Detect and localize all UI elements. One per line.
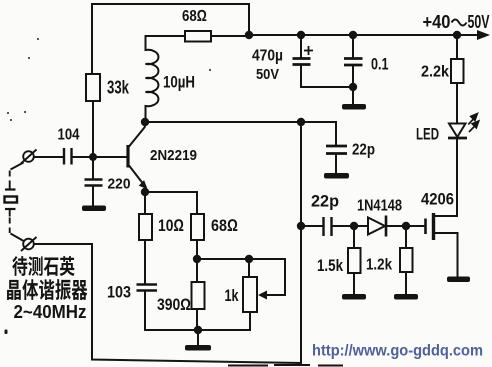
junction 470u ground link bbox=[349, 83, 357, 91]
svg-text:10µH: 10µH bbox=[163, 74, 195, 92]
wire feedback vertical bbox=[300, 122, 302, 362]
wire 220 top lead bbox=[92, 157, 94, 179]
svg-text:22p: 22p bbox=[311, 193, 339, 211]
wire 0.1 bottom lead bbox=[352, 66, 354, 104]
wire 22p1 bottom lead bbox=[335, 155, 337, 174]
svg-text:33k: 33k bbox=[107, 78, 130, 98]
wire 103 bottom lead bbox=[144, 292, 146, 331]
wire pot top lead bbox=[248, 259, 250, 277]
svg-text:4206: 4206 bbox=[421, 190, 454, 209]
svg-text:1.5k: 1.5k bbox=[317, 257, 344, 275]
wire 390ohm top lead bbox=[196, 259, 198, 282]
ground under 220 bbox=[82, 206, 106, 212]
wire pot bottom lead bbox=[249, 312, 251, 330]
svg-text:68Ω: 68Ω bbox=[211, 216, 238, 235]
label crystal chinese line2 bbox=[7, 279, 87, 300]
wire pot wiper link bbox=[265, 259, 285, 295]
junction pot top node bbox=[245, 255, 253, 263]
inductor L 10uH bbox=[146, 36, 159, 122]
potentiometer wiper arrow bbox=[258, 291, 267, 300]
resistor 10ohm bbox=[139, 214, 152, 240]
scan artifact bottom dashes bbox=[228, 364, 343, 367]
resistor 1.2k bbox=[400, 248, 413, 272]
capacitor 470u plus sign bbox=[304, 46, 313, 55]
wire crystal return bbox=[34, 244, 301, 363]
LED emission arrows bbox=[468, 114, 478, 132]
junction collector node bbox=[141, 118, 149, 126]
svg-text:2N2219: 2N2219 bbox=[150, 147, 197, 164]
wire coil top corner bbox=[146, 36, 186, 50]
svg-text:50V: 50V bbox=[468, 12, 490, 32]
wire collector rail bbox=[145, 121, 336, 123]
capacitor 470u bbox=[293, 59, 311, 65]
wire node to 22p2 bbox=[301, 225, 323, 227]
wire LED to drain bbox=[456, 140, 458, 217]
crystal XT under test bbox=[5, 190, 18, 210]
ground under source bbox=[447, 277, 470, 283]
capacitor 103 bbox=[137, 285, 158, 291]
wire 10ohm to 103 bbox=[144, 240, 146, 283]
wire base input bbox=[34, 156, 63, 158]
capacitor 22p bypass bbox=[326, 146, 347, 154]
wire 220 bottom lead bbox=[92, 187, 94, 207]
terminal T2 bbox=[21, 237, 37, 251]
wire 1.5k bottom lead bbox=[353, 273, 355, 294]
resistor 68ohm top bbox=[185, 31, 211, 42]
scan artifact dot bbox=[5, 330, 8, 335]
junction feedback top bbox=[297, 118, 305, 126]
ground under 1.5k bbox=[342, 294, 366, 300]
wire bottom row bbox=[145, 329, 250, 331]
terminal T1 bbox=[21, 150, 37, 164]
wire emitter divider row bbox=[197, 258, 285, 260]
junction bottom node bbox=[194, 326, 202, 334]
wire diode to node bbox=[386, 225, 424, 227]
junction 470u rail bbox=[297, 31, 305, 39]
ground under 22p bypass bbox=[324, 173, 349, 179]
label crystal chinese line1 bbox=[12, 256, 74, 276]
wire drain lead bbox=[434, 215, 457, 217]
wire top rail bbox=[92, 3, 249, 5]
LED bbox=[448, 124, 467, 139]
wire 2.2k top lead bbox=[456, 35, 458, 59]
potentiometer 1k bbox=[243, 277, 257, 312]
wire 68ohm to rail bbox=[211, 35, 249, 37]
wire 68ohm2 top lead bbox=[196, 192, 198, 214]
capacitor 0.1 bbox=[344, 59, 363, 66]
svg-text:1.2k: 1.2k bbox=[366, 257, 392, 274]
wire 0.1 top lead bbox=[352, 35, 354, 58]
wire emitter stub bbox=[145, 187, 147, 192]
capacitor 22p coupling bbox=[324, 217, 332, 236]
svg-text:1k: 1k bbox=[225, 287, 240, 305]
wire 10ohm top lead bbox=[144, 192, 146, 214]
ground under 0.1 bbox=[342, 104, 366, 110]
resistor 33k bbox=[86, 74, 100, 101]
wire 1.2k bottom lead bbox=[405, 272, 407, 294]
junction 2.2k rail bbox=[453, 31, 461, 39]
wire 390ohm bottom lead bbox=[196, 309, 198, 330]
wire 33k bottom lead bbox=[92, 101, 94, 157]
junction 1.5k node bbox=[350, 222, 358, 230]
svg-text:22p: 22p bbox=[352, 142, 375, 159]
wire 1.2k top lead bbox=[405, 226, 407, 248]
transistor Q1 2N2219 bbox=[128, 122, 147, 188]
wire ground stub 390 bbox=[197, 330, 199, 345]
junction rail drop bbox=[245, 31, 253, 39]
svg-text:http://www.go-gddq.com: http://www.go-gddq.com bbox=[312, 343, 483, 360]
wire 22p1 top lead bbox=[335, 122, 337, 146]
junction base node bbox=[89, 153, 97, 161]
svg-text:390Ω: 390Ω bbox=[157, 296, 191, 314]
wire crystal dashed leads bbox=[10, 163, 25, 242]
svg-text:220: 220 bbox=[108, 176, 131, 193]
svg-text:2.2k: 2.2k bbox=[421, 64, 449, 81]
junction emitter node bbox=[141, 188, 149, 196]
resistor 390ohm bbox=[192, 282, 205, 309]
svg-text:470µ: 470µ bbox=[252, 48, 283, 65]
MOSFET Q2 4206 bbox=[426, 213, 434, 240]
wire rail drop bbox=[248, 4, 250, 35]
capacitor 220 bbox=[85, 180, 103, 186]
svg-text:50V: 50V bbox=[256, 66, 279, 83]
svg-text:2~40MHz: 2~40MHz bbox=[14, 302, 87, 322]
resistor 68ohm emitter bbox=[191, 214, 204, 240]
supply arrow +40-50V bbox=[477, 30, 490, 40]
resistor 1.5k bbox=[348, 248, 361, 273]
svg-text:103: 103 bbox=[107, 284, 131, 302]
svg-text:104: 104 bbox=[58, 127, 80, 144]
wire 470u top lead bbox=[300, 35, 302, 58]
svg-text:LED: LED bbox=[416, 126, 439, 144]
capacitor 104 bbox=[64, 148, 72, 165]
junction detector input bbox=[297, 222, 305, 230]
scan artifact specks bbox=[7, 38, 211, 121]
svg-text:1N4148: 1N4148 bbox=[357, 198, 402, 215]
wire emitter node row bbox=[145, 191, 197, 193]
wire 68ohm2 bottom lead bbox=[196, 240, 198, 259]
wire source lead bbox=[434, 233, 458, 277]
svg-text:0.1: 0.1 bbox=[371, 55, 389, 74]
diode D1 1N4148 bbox=[368, 216, 386, 237]
svg-text:10Ω: 10Ω bbox=[158, 216, 184, 235]
junction 1.2k node bbox=[402, 222, 410, 230]
junction 0.1 rail bbox=[349, 31, 357, 39]
ground under 1.2k bbox=[394, 294, 418, 300]
wire 470u bottom lead bbox=[301, 66, 353, 88]
wire cap104 to base bbox=[73, 156, 128, 158]
svg-text:+40: +40 bbox=[423, 12, 451, 32]
wire main supply rail bbox=[249, 34, 480, 36]
wire 33k top lead bbox=[91, 4, 93, 74]
ground under 390ohm node bbox=[185, 345, 211, 351]
resistor 2.2k bbox=[451, 59, 464, 83]
junction 390 top node bbox=[193, 255, 201, 263]
wire 2.2k to LED bbox=[456, 83, 458, 123]
svg-text:68Ω: 68Ω bbox=[182, 8, 207, 25]
wire 1.5k top lead bbox=[353, 226, 355, 248]
wire 22p2 to node bbox=[333, 225, 369, 227]
